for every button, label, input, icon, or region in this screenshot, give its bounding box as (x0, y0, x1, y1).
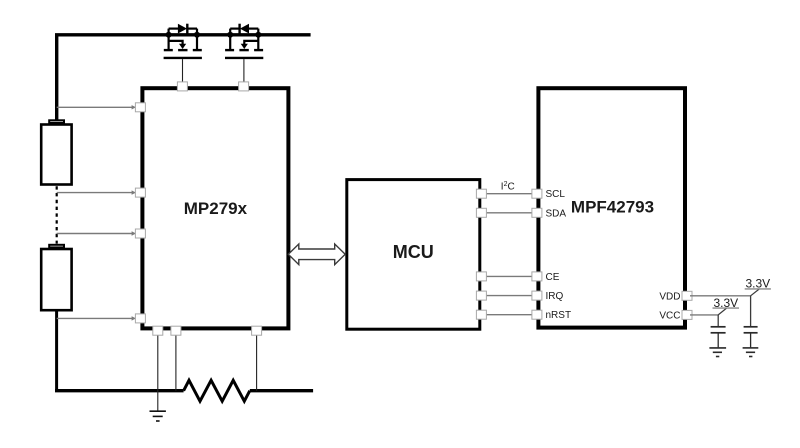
battery cell BT2 (41, 245, 71, 310)
pin U1 gate1 (177, 82, 187, 91)
pin U2 CE (476, 272, 486, 281)
svg-text:MPF42793: MPF42793 (571, 197, 654, 216)
transistor Q2 (225, 24, 263, 58)
battery cell BT1 (41, 120, 71, 184)
wire bottom rail left (55, 389, 184, 392)
wire VCC cap lead (717, 315, 719, 326)
pin U3 CE (532, 272, 542, 281)
pin U1 shunt1 (171, 326, 181, 335)
wire shunt lead right (256, 331, 258, 391)
wire sense line BT1 bottom (57, 190, 136, 194)
pin U1 sense top (135, 103, 145, 112)
wire VDD (690, 295, 751, 297)
wire top battery rail (57, 35, 311, 121)
svg-text:SCL: SCL (546, 189, 566, 200)
capacitor C1 (711, 327, 726, 348)
wire sense line cell top (57, 105, 136, 109)
net 3.3V VCC tap (713, 296, 740, 315)
block U3 MPF42793 (538, 88, 685, 327)
pin U2 SCL (476, 189, 486, 198)
wire dashed inter-cell link (56, 186, 58, 243)
wire sense line cell bottom (57, 316, 136, 320)
pin U3 SDA (532, 208, 542, 217)
wire shunt lead left (175, 331, 177, 391)
arrow bidirectional bus (288, 244, 345, 265)
block U1 MP279x (142, 88, 288, 328)
svg-text:MCU: MCU (393, 242, 434, 262)
svg-text:3.3V: 3.3V (745, 277, 770, 291)
transistor Q1 (164, 24, 202, 58)
ground G2 (743, 348, 759, 357)
svg-text:IRQ: IRQ (546, 291, 564, 302)
wire IRQ (480, 295, 539, 297)
pin U3 nRST (532, 310, 542, 319)
wire Q2 gate lead (243, 59, 245, 84)
pin U1 sense mid1 (135, 188, 145, 197)
wire SDA (480, 212, 539, 214)
wire VDD cap lead (750, 296, 752, 326)
svg-text:I2C: I2C (501, 181, 515, 193)
wire nRST (480, 314, 539, 316)
svg-text:3.3V: 3.3V (713, 296, 738, 310)
pin U2 IRQ (476, 291, 486, 300)
wire ground lead AGND (157, 331, 159, 412)
pin U3 SCL (532, 189, 542, 198)
pin U2 nRST (476, 310, 486, 319)
net 3.3V VDD tap (745, 277, 771, 296)
pin U1 gate2 (239, 82, 249, 91)
svg-text:CE: CE (546, 272, 560, 283)
svg-text:SDA: SDA (546, 208, 567, 219)
pin U2 SDA (476, 208, 486, 217)
wire SCL (480, 193, 539, 195)
pin U1 sense mid2 (135, 229, 145, 238)
wire Q1 gate lead (182, 59, 184, 84)
resistor R1 (184, 380, 250, 401)
capacitor C2 (744, 327, 758, 348)
pin U1 agnd (153, 326, 163, 335)
wire bottom rail right (250, 389, 313, 392)
pin U3 VCC (682, 310, 692, 319)
svg-text:nRST: nRST (546, 310, 572, 321)
svg-text:MP279x: MP279x (184, 199, 248, 218)
pin U1 shunt2 (252, 326, 262, 335)
wire CE (480, 275, 539, 277)
pin U3 VDD (682, 291, 692, 300)
wire sense line BT2 top (57, 231, 136, 235)
wire BT2 negative lead (55, 312, 58, 391)
wire VCC (690, 314, 718, 316)
pin U1 sense bottom (135, 314, 145, 323)
svg-text:VDD: VDD (659, 291, 680, 302)
block U2 MCU (347, 180, 480, 330)
ground G3 (709, 348, 726, 357)
pin U3 IRQ (532, 291, 542, 300)
svg-text:VCC: VCC (659, 310, 680, 321)
ground G1 (150, 411, 166, 421)
